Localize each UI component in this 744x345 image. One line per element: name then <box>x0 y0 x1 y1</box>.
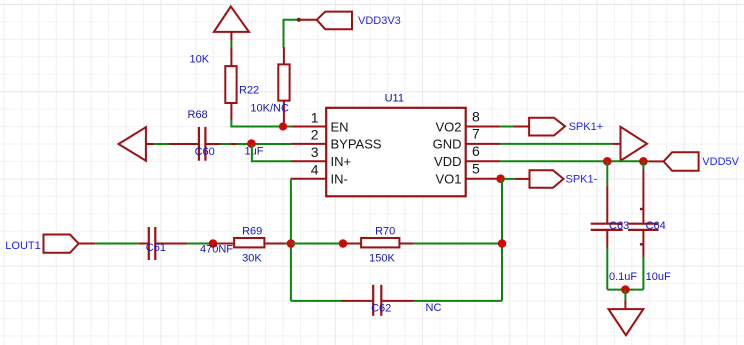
IC U11 <box>291 108 501 197</box>
junction VDD/C64 <box>639 157 648 166</box>
net port (triangle, left) on BYPASS line <box>119 127 155 161</box>
junction R70 left <box>339 239 348 248</box>
wire C62 to VO1 vertical <box>414 300 503 302</box>
wire pin6 VDD rail <box>500 160 649 162</box>
svg-text:VDD3V3: VDD3V3 <box>358 15 401 27</box>
wire bottom left (IN- to C62) <box>291 300 341 302</box>
wire C63 top <box>606 161 608 185</box>
svg-text:VO2: VO2 <box>435 119 461 134</box>
svg-text:R70: R70 <box>375 225 395 237</box>
svg-text:10K/NC: 10K/NC <box>250 103 289 115</box>
net port (triangle, up) above R22 <box>214 6 249 40</box>
svg-text:0.1uF: 0.1uF <box>609 271 637 283</box>
svg-text:C63: C63 <box>609 220 629 232</box>
svg-text:GND: GND <box>433 137 462 152</box>
svg-text:IN-: IN- <box>331 172 348 187</box>
resistor R69 <box>213 238 285 247</box>
net flag VDD5V <box>649 152 699 171</box>
wire junction to ground <box>624 290 626 301</box>
svg-text:C60: C60 <box>195 146 215 158</box>
wire triangle to R22 <box>230 41 232 49</box>
junction BYPASS/IN+ <box>247 139 256 148</box>
svg-text:R68: R68 <box>188 109 208 121</box>
junction VDD/C63 <box>603 157 612 166</box>
svg-text:5: 5 <box>472 161 480 177</box>
capacitor C61 <box>139 227 187 260</box>
capacitor C63 <box>591 186 623 248</box>
wire VO1 vertical <box>501 179 503 301</box>
C64 polarity tick <box>640 208 644 210</box>
net flag SPK1- <box>515 170 564 188</box>
svg-text:C64: C64 <box>646 220 666 232</box>
wire junction to R70 <box>291 243 343 245</box>
resistor R23 10K/NC <box>278 47 289 127</box>
junction above ground <box>621 285 630 294</box>
svg-text:1: 1 <box>311 109 319 125</box>
svg-text:6: 6 <box>472 143 480 159</box>
wire R69 to junction <box>285 243 291 245</box>
wire C64 bottom <box>642 257 644 290</box>
wire C60 to pin2 <box>221 143 232 145</box>
resistor R70 <box>343 238 414 247</box>
wire pin5 to SPK1- <box>504 178 515 180</box>
svg-text:EN: EN <box>331 119 349 134</box>
capacitor C60 <box>169 127 221 161</box>
svg-text:NC: NC <box>426 302 442 314</box>
svg-text:470NF: 470NF <box>200 243 233 255</box>
svg-text:SPK1-: SPK1- <box>566 173 598 185</box>
svg-text:SPK1+: SPK1+ <box>569 121 604 133</box>
svg-text:IN+: IN+ <box>331 154 352 169</box>
svg-text:LOUT1: LOUT1 <box>5 240 40 252</box>
wire LOUT1 to C61 <box>95 243 139 245</box>
svg-text:BYPASS: BYPASS <box>331 137 382 152</box>
svg-text:10K: 10K <box>190 54 210 66</box>
wire C64 top <box>642 161 644 169</box>
wire IN- vertical <box>290 180 292 301</box>
wire to pin2 <box>237 143 292 145</box>
svg-text:VDD5V: VDD5V <box>702 156 739 168</box>
power flag VDD3V3 <box>299 12 352 30</box>
svg-text:150K: 150K <box>369 252 395 264</box>
wire cap bottoms join <box>607 289 643 291</box>
net flag LOUT1 <box>44 235 96 253</box>
wire end dot <box>297 18 301 22</box>
svg-text:10uF: 10uF <box>646 271 671 283</box>
svg-text:7: 7 <box>472 126 480 142</box>
svg-text:4: 4 <box>311 162 319 178</box>
net flag SPK1+ <box>514 118 566 136</box>
resistor R22 <box>225 48 236 121</box>
junction after C61 <box>209 239 218 248</box>
svg-text:R22: R22 <box>239 84 259 96</box>
svg-text:3: 3 <box>311 144 319 160</box>
wire pin8 to SPK1+ <box>500 126 513 128</box>
wire VDD3V3 to resistor top <box>284 20 299 48</box>
svg-text:R69: R69 <box>242 225 262 237</box>
junction pin5 <box>496 174 505 183</box>
svg-text:1uF: 1uF <box>245 146 264 158</box>
svg-text:C61: C61 <box>146 242 166 254</box>
svg-text:VO1: VO1 <box>435 172 461 187</box>
wire R70 to VO1 vertical <box>414 243 503 245</box>
svg-text:30K: 30K <box>242 252 262 264</box>
wire IN+ branch <box>252 145 292 161</box>
capacitor C62 <box>341 285 414 316</box>
wire pin7 to port <box>500 143 612 145</box>
svg-text:8: 8 <box>472 108 480 124</box>
ground port (triangle, down) <box>609 301 644 336</box>
junction R70/VO1 <box>498 239 507 248</box>
wire port to C60 <box>154 143 169 145</box>
net port (triangle, right) on GND line <box>612 127 647 161</box>
svg-text:VDD: VDD <box>434 154 461 169</box>
svg-text:2: 2 <box>311 127 319 143</box>
svg-text:C62: C62 <box>371 302 391 314</box>
wire R22 bottom to pin1 <box>231 120 291 127</box>
wire C61 to R69 <box>187 243 213 245</box>
capacitor C64 <box>628 170 659 258</box>
svg-text:U11: U11 <box>385 93 404 105</box>
wire C63 bottom <box>606 248 608 290</box>
wire segment red on BYPASS line <box>231 143 237 145</box>
junction IN-/R69 <box>287 239 296 248</box>
junction on pin1 wire <box>279 122 287 130</box>
